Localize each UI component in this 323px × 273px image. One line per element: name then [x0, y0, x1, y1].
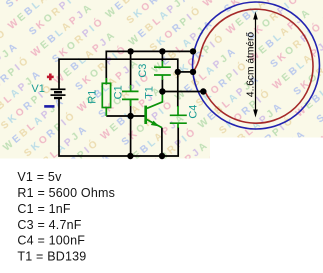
- svg-text:C1 = 1nF: C1 = 1nF: [17, 202, 71, 216]
- svg-text:T1: T1: [143, 86, 155, 99]
- svg-text:4..6cm átmérő: 4..6cm átmérő: [246, 32, 257, 97]
- svg-text:C3 = 4.7nF: C3 = 4.7nF: [17, 218, 81, 232]
- svg-text:C1: C1: [113, 85, 125, 99]
- svg-text:V1: V1: [31, 83, 44, 95]
- svg-text:C4: C4: [188, 105, 200, 119]
- svg-text:T1 = BD139: T1 = BD139: [17, 250, 86, 264]
- svg-text:V1 = 5v: V1 = 5v: [17, 170, 62, 184]
- svg-text:R1: R1: [87, 90, 99, 104]
- svg-text:C4 = 100nF: C4 = 100nF: [17, 234, 85, 248]
- svg-text:C3: C3: [137, 64, 149, 78]
- svg-text:R1 = 5600 Ohms: R1 = 5600 Ohms: [17, 186, 115, 200]
